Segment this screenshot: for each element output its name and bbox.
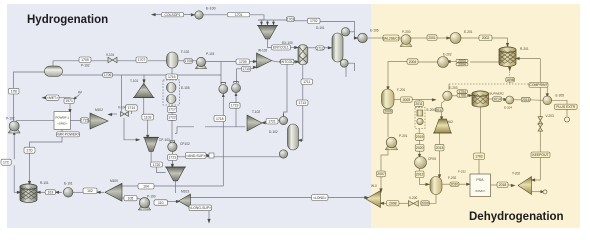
instrument circle CP-100 [219, 85, 228, 94]
dehydrogenation section background panel [371, 4, 580, 228]
svg-text:PSA: PSA [476, 178, 484, 182]
funnel T-103 [166, 167, 185, 181]
svg-text:110: 110 [158, 201, 164, 205]
stream label 1718 [214, 116, 226, 122]
stream label 105 [124, 196, 137, 201]
svg-text:1701: 1701 [235, 13, 243, 17]
wire ENTCOL2 down to D-102 condenser [284, 64, 288, 116]
stream label 2006 [384, 109, 393, 113]
stream label 1711 [301, 79, 313, 85]
stream label 1710 [242, 66, 251, 71]
svg-text:E-105: E-105 [181, 86, 190, 90]
wire T-101 outlet to box 1103 [143, 98, 145, 115]
stream label 103 [45, 190, 55, 195]
svg-text:E-106: E-106 [370, 29, 379, 33]
svg-text:F-201: F-201 [397, 88, 406, 92]
wire pump P-100 to M-103 [168, 201, 178, 203]
svg-text:1707: 1707 [138, 58, 146, 62]
expander T-203 [518, 177, 532, 195]
stream label 1717b [167, 115, 176, 121]
wire riser from instrument circle CP-101 [237, 69, 242, 83]
stream label 2009 [421, 201, 430, 206]
svg-text:D-102: D-102 [269, 130, 278, 134]
wire PSA to expander T-203 [491, 184, 498, 186]
svg-text:2014: 2014 [493, 97, 501, 101]
svg-text:17D: 17D [26, 148, 33, 152]
svg-text:1710: 1710 [242, 67, 250, 71]
svg-text:M103: M103 [181, 190, 189, 194]
pump P-201 [385, 144, 398, 149]
cooler E-205 [543, 96, 552, 105]
wire vertical to circle CP-100 [220, 62, 222, 85]
reactor R-201 [499, 47, 516, 67]
svg-text:1705: 1705 [81, 58, 89, 62]
stream label 1712 [316, 46, 324, 50]
svg-text:2004: 2004 [458, 63, 466, 67]
svg-text:P-201: P-201 [399, 134, 408, 138]
circle CP102 [168, 142, 177, 151]
svg-text:1721: 1721 [268, 120, 276, 124]
svg-text:1708: 1708 [184, 59, 192, 63]
vessel F-201 [382, 89, 395, 109]
svg-text:E-205: E-205 [556, 94, 565, 98]
stream label 104 [138, 184, 154, 190]
svg-text:<GRID>: <GRID> [57, 122, 68, 126]
svg-text:T-102: T-102 [252, 110, 260, 114]
stream label LONG [312, 195, 329, 201]
stream label KEEPOUT [531, 152, 550, 158]
svg-text:1103: 1103 [144, 115, 151, 119]
stream label COMPRINT [529, 82, 548, 87]
stream label 1713 [297, 100, 309, 106]
stream label 2012 [415, 171, 424, 178]
svg-text:V-200: V-200 [409, 196, 418, 200]
svg-text:<LONG>: <LONG> [313, 196, 327, 200]
svg-text:COLSOP1: COLSOP1 [165, 13, 181, 17]
svg-text:1717: 1717 [168, 108, 176, 112]
svg-text:V-101: V-101 [106, 53, 115, 57]
stream label MR-POWER [57, 132, 80, 137]
vent square [209, 153, 214, 158]
furnace H-202 [434, 119, 451, 133]
svg-text:102: 102 [87, 189, 93, 193]
svg-text:17B: 17B [11, 89, 18, 93]
heater E-203 [443, 91, 452, 100]
stream label 1701 [227, 13, 249, 17]
condenser E-103 [279, 116, 287, 124]
svg-text:2012: 2012 [416, 173, 424, 177]
stream label 1703 [287, 17, 295, 22]
svg-text:E-200: E-200 [427, 108, 436, 112]
stream label ENTCOL2 [281, 59, 295, 64]
wire F-102 to left recycle [14, 72, 46, 88]
svg-text:2009: 2009 [421, 201, 429, 205]
pump P-200 [400, 41, 412, 46]
stream label 2011 [415, 101, 424, 106]
heater E-100 [195, 11, 203, 19]
wire burner chain [452, 95, 457, 97]
wire vessel chain x172 vertical [171, 68, 173, 74]
wire splitter bottom branch to pump [122, 197, 124, 199]
wire M-103 long outlet to dehydrogenation [191, 197, 367, 199]
svg-text:1722: 1722 [168, 116, 176, 120]
stream label 2015 [521, 97, 530, 102]
svg-text:H#2: H#2 [447, 120, 453, 124]
svg-text:2013: 2013 [436, 146, 444, 150]
svg-text:T-101: T-101 [130, 79, 138, 83]
wire condenser D-101 to E-106 [354, 36, 356, 38]
svg-text:2007: 2007 [377, 172, 385, 176]
svg-text:2020: 2020 [416, 146, 424, 150]
stream label 2002 [479, 35, 492, 41]
svg-text:BURNER2: BURNER2 [490, 92, 505, 96]
reactor R-101 [20, 184, 37, 202]
stream label 2007 [377, 171, 386, 177]
svg-text:1706: 1706 [104, 73, 112, 77]
wire E-106 to pump P-200 [368, 37, 383, 39]
stream label 1762 [474, 153, 485, 160]
vent circle T-203 [543, 190, 547, 194]
svg-text:M102: M102 [95, 108, 103, 112]
stream label LONG-SUP [189, 205, 212, 211]
stream label 1709 [236, 59, 250, 64]
stream label 169B [506, 77, 515, 82]
wire vessel F-102 top outlet chain [53, 61, 79, 66]
pump P-102 [8, 128, 20, 133]
stream label 2017 [435, 108, 443, 112]
wire LONG-SUP vent down [208, 211, 210, 221]
svg-text:CP-103: CP-103 [159, 138, 170, 142]
column D-101 [332, 33, 343, 62]
svg-text:104: 104 [143, 185, 149, 189]
stream label 1704 [457, 90, 468, 94]
vessel F-103 vertical [167, 52, 179, 68]
svg-text:1714: 1714 [128, 106, 136, 110]
wire funnel T-103 outlet to mixer M-103 [175, 181, 177, 193]
wire MET supply to POWER-1 [44, 97, 46, 99]
stream label 1714 [126, 105, 138, 111]
svg-text:1716: 1716 [168, 75, 176, 79]
wire 1718 stub [224, 118, 226, 120]
valve V-101 [108, 57, 117, 62]
stream label 1721 [266, 119, 278, 125]
stream label 2001 [427, 35, 437, 41]
stream label 102 [83, 188, 97, 194]
svg-text:1713: 1713 [298, 101, 306, 105]
svg-text:T-202: T-202 [512, 172, 520, 176]
stream label 2014 [493, 97, 502, 102]
stream label 2018 [497, 182, 508, 188]
hydrogenation section background panel [7, 4, 371, 228]
wire E-200 dashed unit vertical chain [418, 106, 420, 107]
cooler E-202 [438, 57, 449, 68]
condenser drum D-101 [341, 28, 349, 36]
stream label 2010 [450, 182, 459, 186]
cone separator T-101 [134, 83, 154, 97]
column D-102 [288, 124, 299, 150]
stream label 17C [1, 159, 11, 165]
svg-text:POWER-1: POWER-1 [55, 116, 69, 120]
stream label 1706 [103, 73, 113, 78]
svg-text:ENTCOL2: ENTCOL2 [279, 60, 295, 64]
svg-text:105: 105 [128, 196, 134, 200]
svg-text:1702: 1702 [310, 19, 318, 23]
wire P-200 chain to R-201 [411, 37, 427, 39]
svg-text:<MET>: <MET> [47, 96, 58, 100]
reboiler E-104 [279, 150, 287, 158]
svg-text:CP102: CP102 [180, 142, 190, 146]
stream label 1707 [136, 57, 147, 63]
svg-text:E-201: E-201 [464, 30, 473, 34]
stream label PLUS-EXTR [554, 104, 577, 109]
wire F-202 to PSA [442, 183, 450, 185]
compressor M-102 [90, 113, 108, 129]
svg-text:E-101: E-101 [64, 182, 73, 186]
wire mixer M-101 feed header [258, 19, 287, 21]
stream label 2008 [387, 201, 400, 206]
wire T-100 bottoms down x302 [302, 65, 304, 80]
svg-text:CP05: CP05 [428, 157, 436, 161]
svg-text:P-100: P-100 [147, 195, 156, 199]
expander T-102 [247, 115, 262, 131]
mixer W-0 [366, 191, 381, 208]
wire furnace H-202 to F-202 [439, 133, 441, 144]
svg-text:1711: 1711 [303, 80, 310, 84]
svg-text:1720: 1720 [153, 163, 161, 167]
wire valve V-103 feed from long line [121, 75, 123, 112]
heater E-101 [63, 188, 73, 198]
valve V-200 [408, 201, 418, 207]
stream label 1708 [184, 59, 193, 64]
svg-text:1706: 1706 [458, 94, 466, 98]
svg-text:<MR-POWER>: <MR-POWER> [56, 133, 79, 137]
wire feed stream top line [154, 14, 161, 16]
svg-text:E-203: E-203 [449, 86, 458, 90]
svg-text:2010: 2010 [451, 182, 459, 186]
stream label 2005 [401, 97, 413, 102]
svg-text:W-102: W-102 [258, 49, 268, 53]
svg-text:V-104: V-104 [118, 106, 127, 110]
wire R-201 right recycle [518, 58, 540, 60]
svg-text:COMPRINT: COMPRINT [529, 83, 547, 87]
stream label 2003 [456, 59, 468, 62]
stream label 1717 [167, 106, 176, 112]
stream label 2019 [415, 134, 424, 141]
wire dotted standby line [449, 83, 541, 85]
wire E-203 down to furnace [442, 101, 445, 108]
svg-text:W: W [78, 90, 82, 95]
wire D-102 reboiler to T-103 [177, 156, 281, 158]
svg-text:E-204: E-204 [504, 106, 512, 110]
stream label 110 [154, 200, 168, 205]
svg-text:R-201: R-201 [520, 47, 529, 51]
column T-100 packed [298, 45, 308, 65]
heater E-201 [450, 33, 461, 44]
wire reboiler D-101 stub [348, 63, 354, 71]
svg-text:103: 103 [48, 190, 54, 194]
svg-text:<DIVD>: <DIVD> [475, 189, 486, 193]
wire F-201 side to furnace [394, 99, 401, 101]
wire T-100 top draw to D-101 [308, 47, 316, 49]
svg-text:1721: 1721 [169, 156, 177, 160]
wire drop to cone T-101 [143, 75, 145, 80]
svg-text:2019: 2019 [416, 135, 424, 139]
svg-text:2005: 2005 [403, 98, 411, 102]
stream label 2020 [415, 145, 424, 152]
block PSA [470, 174, 491, 197]
valve V-104 [121, 112, 129, 117]
wire splitter top branch recycle [122, 185, 138, 187]
stream label 17D [24, 147, 35, 153]
wire pump P-102 down leg [13, 132, 15, 160]
splitter M-100 [105, 183, 122, 201]
svg-text:2004: 2004 [409, 60, 417, 64]
svg-text:1762: 1762 [475, 155, 483, 159]
wire tee down to E-200 unit [418, 100, 420, 102]
svg-text:1715: 1715 [81, 119, 89, 123]
svg-text:2011: 2011 [415, 102, 422, 106]
circle CP-200 [415, 157, 427, 169]
stream label 1971 [64, 98, 74, 103]
reactor R-202 burner [472, 91, 489, 107]
vent circle right [565, 117, 570, 122]
svg-text:<LONG-SUP>: <LONG-SUP> [189, 206, 211, 210]
stream label 1720 [151, 162, 163, 167]
svg-text:1719: 1719 [231, 104, 239, 108]
pump P-100 [138, 205, 150, 210]
stream label 1705 [79, 57, 91, 63]
svg-text:P-101: P-101 [206, 52, 215, 56]
svg-text:2008: 2008 [389, 202, 397, 206]
svg-text:1712: 1712 [316, 46, 324, 50]
wire long line y75 [62, 74, 221, 76]
svg-text:ENTCOL1: ENTCOL1 [273, 46, 289, 50]
wire MR-POWER to R-101 top [30, 137, 63, 182]
wire W-0 valve chain [381, 202, 387, 204]
svg-text:17C: 17C [3, 160, 10, 164]
wire header to E-106 feed [295, 20, 308, 22]
funnel CP-103 [144, 137, 158, 151]
wire splitter to R-101 row [37, 191, 45, 193]
wire F-201 bottoms to pump P-201 [387, 108, 389, 111]
pump P-101 [195, 64, 206, 69]
svg-text:<AND-SUP>: <AND-SUP> [186, 154, 205, 158]
wire vent drop right edge [566, 109, 568, 117]
compressor W-102 [257, 53, 272, 68]
stream label 1705y [457, 94, 468, 98]
valve V-203 double [538, 117, 543, 125]
stream exit arrow top left [151, 13, 156, 16]
svg-text:D-101: D-101 [316, 26, 325, 30]
svg-text:1718: 1718 [216, 117, 224, 121]
svg-text:SAL2SEC1: SAL2SEC1 [382, 36, 399, 40]
svg-text:Dehydrogenation: Dehydrogenation [469, 211, 564, 223]
stream label 17B [9, 88, 20, 94]
svg-text:P-200: P-200 [402, 30, 411, 34]
svg-text:V-203: V-203 [546, 114, 555, 118]
mixer M-101 funnel [258, 26, 277, 40]
wire F-202 bottoms to valve [429, 195, 436, 204]
wire compressor M-102 outlet to POWER-1 [89, 120, 91, 122]
wire mixer M-101 outlet to ENTCOL1 [268, 39, 272, 48]
svg-text:W-0: W-0 [371, 184, 377, 188]
svg-text:2015: 2015 [522, 98, 530, 102]
wire R-202 bottoms to PSA [480, 107, 482, 154]
stream label AND-SUP [186, 153, 207, 159]
reboiler D-101 [340, 59, 348, 67]
wire POWER-1 to MR-POWER label [61, 129, 63, 132]
stream label 1715 [81, 118, 89, 123]
svg-text:1709: 1709 [239, 60, 247, 64]
wire R-201 outlet to E-202 to F-201 [470, 61, 499, 63]
block POWER-1 [54, 112, 71, 130]
cooler E-204 [506, 96, 514, 104]
wire T-102 chain [263, 122, 266, 123]
wire valve V-203 vertical [539, 130, 541, 152]
wire circle CP-101 down chain [236, 108, 245, 127]
instrument circle CP-101 [232, 84, 241, 93]
svg-text:2006: 2006 [384, 110, 392, 114]
svg-text:P-102: P-102 [6, 117, 15, 121]
stream label COLSOP1 [161, 13, 183, 17]
stream label 1719 [229, 103, 240, 109]
wire funnel CP-103 outlet [150, 152, 152, 163]
wire W-102 outlet to T-100 [272, 61, 281, 62]
vessel F-202 [430, 177, 442, 195]
svg-text:1703: 1703 [287, 17, 295, 21]
unit E-105 dashed block [163, 80, 180, 105]
stream label 1702 [308, 18, 321, 23]
svg-text:R-101: R-101 [40, 181, 49, 185]
svg-text:169B: 169B [506, 78, 515, 82]
wire ENTCOL1 to column top [291, 47, 296, 49]
wire instrument circles feeds [222, 97, 224, 187]
wire T-203 vent outlet [532, 191, 543, 193]
svg-text:M100: M100 [110, 179, 118, 183]
stream label 2013 [435, 144, 444, 151]
wire work stream W [75, 95, 80, 99]
svg-text:P-102: P-102 [81, 64, 90, 68]
stream label SAL2SEC1 [383, 35, 399, 41]
svg-text:2001: 2001 [428, 36, 436, 40]
svg-text:F-102: F-102 [181, 50, 190, 54]
svg-text:F-202: F-202 [448, 176, 457, 180]
stream label 1103 [142, 114, 154, 120]
stream label 1721 [168, 154, 178, 160]
svg-text:1971: 1971 [65, 99, 73, 103]
stream label ENTCOL1 [272, 45, 291, 50]
svg-text:2002: 2002 [482, 36, 490, 40]
mixer M-103 [179, 194, 191, 208]
svg-text:2017: 2017 [435, 108, 443, 112]
stream label 2003b [456, 63, 468, 66]
stream label 1716 [166, 74, 178, 80]
svg-text:EX-100: EX-100 [282, 41, 293, 45]
wire power line into POWER-1 [16, 119, 54, 121]
vessel F-102 horizontal drum [45, 66, 63, 77]
wire R-201 bottoms dotted [509, 67, 511, 78]
wire P-201 to mixer W-0 [381, 149, 388, 171]
svg-text:E-100: E-100 [206, 7, 216, 11]
svg-text:PLUS EXTR: PLUS EXTR [556, 105, 575, 109]
svg-text:KEEPOUT: KEEPOUT [532, 153, 548, 157]
stream label MET [46, 95, 59, 100]
svg-text:E-202: E-202 [443, 53, 452, 57]
svg-text:Hydrogenation: Hydrogenation [27, 14, 108, 26]
svg-text:2018: 2018 [499, 183, 507, 187]
wire AND-SUP arrow [206, 155, 209, 157]
cooler E-106 [358, 33, 368, 43]
